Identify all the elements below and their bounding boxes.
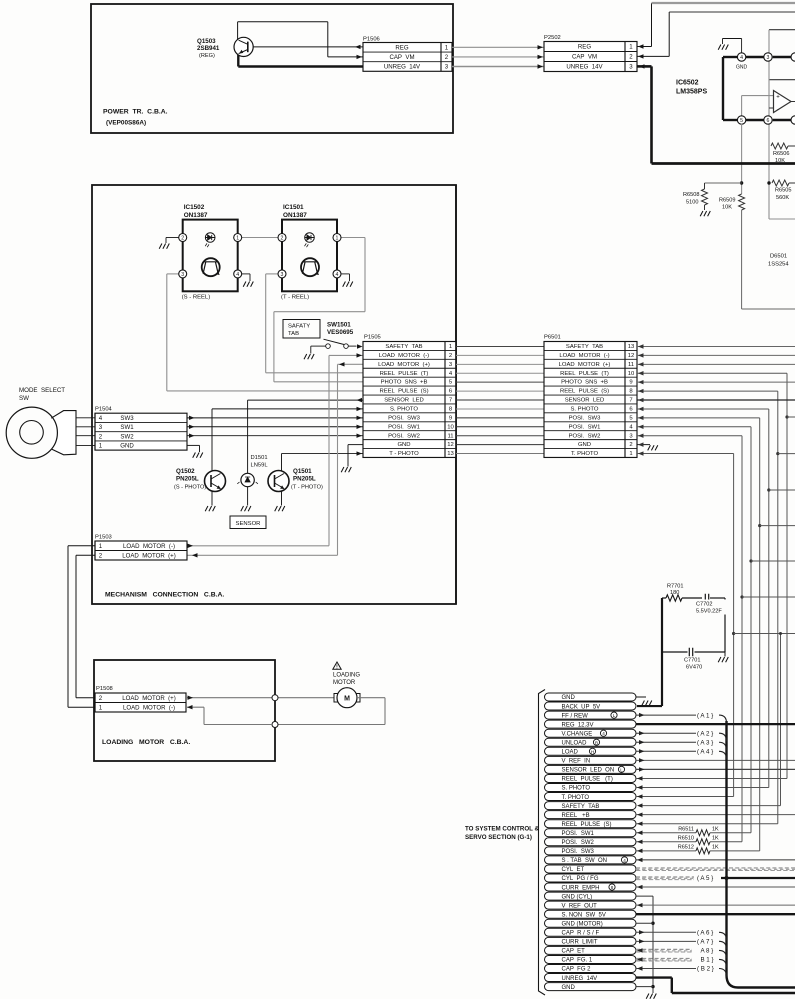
svg-text:2: 2 bbox=[281, 236, 284, 242]
svg-text:V REF IN: V REF IN bbox=[562, 759, 591, 765]
svg-text:REEL PULSE (T): REEL PULSE (T) bbox=[380, 371, 429, 377]
svg-text:(T - PHOTO): (T - PHOTO) bbox=[291, 485, 323, 491]
svg-text:+: + bbox=[776, 95, 780, 101]
svg-text:V REF OUT: V REF OUT bbox=[562, 903, 598, 909]
svg-text:3: 3 bbox=[181, 272, 184, 278]
svg-text:3: 3 bbox=[281, 272, 284, 278]
svg-text:CAP ET: CAP ET bbox=[562, 949, 586, 955]
svg-text:11: 11 bbox=[628, 362, 634, 368]
svg-text:CYL PG / FG: CYL PG / FG bbox=[562, 876, 599, 882]
svg-text:R6506: R6506 bbox=[773, 151, 789, 157]
svg-text:SENSOR LED ON: SENSOR LED ON bbox=[562, 768, 615, 774]
svg-text:A 8 }: A 8 } bbox=[697, 948, 713, 955]
svg-text:1SS254: 1SS254 bbox=[768, 262, 789, 268]
svg-text:( A 1 }: ( A 1 } bbox=[697, 712, 713, 719]
svg-text:MODE SELECT: MODE SELECT bbox=[19, 387, 65, 394]
svg-text:S. PHOTO: S. PHOTO bbox=[390, 407, 418, 413]
svg-text:(VEP00S86A): (VEP00S86A) bbox=[106, 120, 146, 127]
svg-text:1: 1 bbox=[236, 236, 239, 242]
svg-text:POSI. SW3: POSI. SW3 bbox=[388, 415, 420, 421]
svg-text:VES0695: VES0695 bbox=[327, 329, 354, 336]
svg-text:GND: GND bbox=[562, 695, 576, 701]
svg-text:IC6502: IC6502 bbox=[676, 80, 699, 87]
svg-text:MOTOR: MOTOR bbox=[333, 680, 356, 686]
svg-text:MECHANISM CONNECTION C.B.A: MECHANISM CONNECTION C.B.A. bbox=[105, 592, 224, 599]
svg-text:GND: GND bbox=[562, 985, 576, 991]
svg-text:P1506: P1506 bbox=[363, 37, 380, 43]
svg-text:UNREG 14V: UNREG 14V bbox=[562, 976, 598, 982]
svg-text:SW: SW bbox=[19, 395, 29, 402]
svg-text:6V470: 6V470 bbox=[686, 665, 702, 671]
svg-text:3: 3 bbox=[767, 55, 770, 61]
svg-text:ON1387: ON1387 bbox=[184, 212, 208, 219]
svg-text:R7701: R7701 bbox=[667, 584, 683, 590]
svg-text:12: 12 bbox=[628, 353, 635, 359]
svg-text:SAFETY TAB: SAFETY TAB bbox=[385, 344, 422, 350]
svg-text:LM358PS: LM358PS bbox=[676, 89, 707, 96]
svg-text:2: 2 bbox=[449, 353, 452, 359]
svg-text:S. PHOTO: S. PHOTO bbox=[562, 786, 591, 792]
svg-text:CAP VM: CAP VM bbox=[572, 54, 597, 61]
svg-text:POWER TR. C.B.A.: POWER TR. C.B.A. bbox=[103, 109, 168, 116]
svg-text:CAP FG. 1: CAP FG. 1 bbox=[562, 958, 593, 964]
svg-text:(T - REEL): (T - REEL) bbox=[281, 295, 309, 301]
svg-text:CAP FG 2: CAP FG 2 bbox=[562, 967, 592, 973]
svg-text:R6509: R6509 bbox=[719, 198, 735, 204]
svg-text:P1508: P1508 bbox=[96, 686, 113, 692]
svg-text:SW3: SW3 bbox=[120, 415, 134, 422]
svg-text:5.5V0.22F: 5.5V0.22F bbox=[696, 609, 722, 615]
svg-text:D1501: D1501 bbox=[251, 455, 268, 461]
svg-text:Q1502: Q1502 bbox=[176, 468, 195, 475]
svg-text:(S - REEL): (S - REEL) bbox=[182, 295, 211, 301]
svg-text:B: B bbox=[595, 740, 598, 745]
svg-text:P1503: P1503 bbox=[95, 535, 112, 541]
svg-text:1: 1 bbox=[449, 344, 452, 350]
svg-text:GND: GND bbox=[397, 442, 410, 448]
svg-text:7: 7 bbox=[629, 398, 632, 404]
svg-text:IC1502: IC1502 bbox=[184, 204, 205, 211]
svg-text:(REG): (REG) bbox=[199, 53, 215, 59]
svg-text:GND (CYL): GND (CYL) bbox=[562, 894, 593, 900]
svg-text:T. PHOTO: T. PHOTO bbox=[571, 451, 598, 457]
svg-text:LOAD: LOAD bbox=[562, 750, 579, 756]
svg-text:R6508: R6508 bbox=[683, 192, 699, 198]
svg-text:CAP VM: CAP VM bbox=[389, 54, 414, 61]
svg-text:SAFATY: SAFATY bbox=[288, 324, 310, 330]
svg-text:9: 9 bbox=[629, 380, 632, 386]
svg-text:T. PHOTO: T. PHOTO bbox=[562, 795, 590, 801]
svg-text:POSI. SW1: POSI. SW1 bbox=[562, 831, 595, 837]
svg-text:TO SYSTEM CONTROL &: TO SYSTEM CONTROL & bbox=[465, 826, 540, 833]
svg-text:H: H bbox=[591, 749, 594, 754]
svg-text:REEL PULSE (T): REEL PULSE (T) bbox=[562, 777, 613, 783]
svg-text:GND: GND bbox=[578, 442, 591, 448]
svg-text:4: 4 bbox=[602, 731, 605, 736]
svg-text:PN205L: PN205L bbox=[293, 476, 316, 483]
svg-text:SW1501: SW1501 bbox=[327, 322, 351, 329]
svg-text:L: L bbox=[620, 767, 623, 772]
svg-text:B 1 }: B 1 } bbox=[697, 957, 714, 964]
svg-text:D6501: D6501 bbox=[770, 254, 787, 260]
svg-text:V.CHANGE: V.CHANGE bbox=[562, 731, 593, 737]
svg-text:C7701: C7701 bbox=[684, 658, 700, 664]
svg-text:CURR LIMIT: CURR LIMIT bbox=[562, 940, 598, 946]
svg-text:10K: 10K bbox=[722, 205, 732, 211]
svg-text:13: 13 bbox=[628, 344, 635, 350]
svg-text:POSI. SW3: POSI. SW3 bbox=[562, 849, 595, 855]
svg-text:POSI. SW2: POSI. SW2 bbox=[562, 840, 595, 846]
svg-text:REG: REG bbox=[395, 44, 408, 51]
svg-text:LN59L: LN59L bbox=[251, 463, 269, 469]
svg-text:2: 2 bbox=[629, 442, 632, 448]
svg-text:P1504: P1504 bbox=[95, 407, 113, 413]
svg-text:C7702: C7702 bbox=[696, 602, 712, 608]
svg-text:PN205L: PN205L bbox=[176, 476, 199, 483]
svg-text:REG 12.3V: REG 12.3V bbox=[562, 722, 594, 728]
svg-text:REEL +B: REEL +B bbox=[562, 813, 590, 819]
svg-text:GND (MOTOR): GND (MOTOR) bbox=[562, 921, 603, 927]
svg-text:13: 13 bbox=[447, 451, 454, 457]
svg-text:SERVO SECTION (G-1): SERVO SECTION (G-1) bbox=[465, 834, 532, 841]
svg-text:REEL PULSE (S): REEL PULSE (S) bbox=[562, 822, 612, 828]
svg-text:( A 7 }: ( A 7 } bbox=[697, 939, 713, 946]
svg-text:BACK UP 5V: BACK UP 5V bbox=[562, 704, 601, 710]
svg-text:ON1387: ON1387 bbox=[283, 212, 307, 219]
svg-text:LOAD MOTOR (+): LOAD MOTOR (+) bbox=[559, 362, 611, 368]
svg-text:UNREG 14V: UNREG 14V bbox=[566, 64, 603, 71]
svg-text:LOAD MOTOR (-): LOAD MOTOR (-) bbox=[123, 543, 175, 550]
svg-text:SENSOR LED: SENSOR LED bbox=[565, 398, 605, 404]
svg-text:1: 1 bbox=[629, 451, 632, 457]
svg-text:M: M bbox=[344, 695, 350, 702]
svg-text:8: 8 bbox=[611, 885, 614, 890]
svg-text:SENSOR: SENSOR bbox=[236, 521, 261, 527]
svg-text:2SB941: 2SB941 bbox=[197, 45, 220, 52]
svg-text:10: 10 bbox=[628, 371, 635, 377]
svg-text:CURR EMPH: CURR EMPH bbox=[562, 885, 600, 891]
svg-text:CYL ET: CYL ET bbox=[562, 867, 585, 873]
svg-text:POSI. SW1: POSI. SW1 bbox=[388, 424, 420, 430]
svg-text:Q1503: Q1503 bbox=[197, 38, 216, 45]
svg-text:R6512: R6512 bbox=[678, 845, 694, 851]
svg-text:4: 4 bbox=[623, 858, 626, 863]
svg-text:4: 4 bbox=[336, 272, 339, 278]
svg-text:( A 3 }: ( A 3 } bbox=[697, 739, 713, 746]
svg-text:( B 2 }: ( B 2 } bbox=[697, 966, 714, 973]
svg-text:LOAD MOTOR (+): LOAD MOTOR (+) bbox=[122, 552, 176, 559]
svg-text:R6510: R6510 bbox=[678, 836, 694, 842]
svg-text:10: 10 bbox=[447, 424, 454, 430]
svg-text:POSI. SW1: POSI. SW1 bbox=[569, 424, 601, 430]
svg-text:(S - PHOTO): (S - PHOTO) bbox=[174, 485, 206, 491]
svg-text:LOAD MOTOR (+): LOAD MOTOR (+) bbox=[122, 695, 176, 702]
svg-text:Q1501: Q1501 bbox=[293, 468, 312, 475]
svg-text:1K: 1K bbox=[712, 845, 719, 851]
svg-text:P2502: P2502 bbox=[544, 35, 561, 41]
svg-text:( A 5 }: ( A 5 } bbox=[697, 875, 713, 882]
svg-text:POSI. SW3: POSI. SW3 bbox=[569, 415, 601, 421]
svg-text:12: 12 bbox=[447, 442, 454, 448]
svg-text:S. PHOTO: S. PHOTO bbox=[570, 407, 598, 413]
svg-text:5100: 5100 bbox=[686, 200, 698, 206]
svg-text:UNLOAD: UNLOAD bbox=[562, 740, 588, 746]
svg-text:SW2: SW2 bbox=[120, 433, 134, 440]
svg-text:SW1: SW1 bbox=[120, 424, 134, 431]
svg-text:LOAD MOTOR (-): LOAD MOTOR (-) bbox=[559, 353, 609, 359]
svg-text:L: L bbox=[613, 713, 616, 718]
svg-text:7: 7 bbox=[449, 398, 452, 404]
svg-text:2: 2 bbox=[181, 236, 184, 242]
svg-text:4: 4 bbox=[236, 272, 239, 278]
svg-text:SAFETY TAB: SAFETY TAB bbox=[566, 344, 603, 350]
svg-text:LOADING MOTOR C.B.A.: LOADING MOTOR C.B.A. bbox=[102, 739, 190, 746]
svg-text:POSI. SW2: POSI. SW2 bbox=[388, 433, 420, 439]
svg-text:1K: 1K bbox=[712, 836, 719, 842]
svg-text:GND: GND bbox=[736, 65, 748, 71]
svg-text:R6511: R6511 bbox=[678, 827, 694, 833]
svg-text:CAP R / S / F: CAP R / S / F bbox=[562, 931, 600, 937]
svg-text:FF / REW: FF / REW bbox=[562, 713, 589, 719]
svg-text:SAFETY TAB: SAFETY TAB bbox=[562, 804, 600, 810]
svg-text:9: 9 bbox=[449, 415, 452, 421]
svg-text:IC1501: IC1501 bbox=[283, 204, 304, 211]
svg-text:6: 6 bbox=[767, 118, 770, 124]
svg-text:R6505: R6505 bbox=[775, 188, 791, 194]
svg-text:-: - bbox=[777, 108, 779, 114]
svg-text:LOAD MOTOR (-): LOAD MOTOR (-) bbox=[379, 353, 429, 359]
svg-text:180: 180 bbox=[670, 590, 679, 596]
svg-text:( A 6 }: ( A 6 } bbox=[697, 930, 713, 937]
svg-text:11: 11 bbox=[447, 433, 453, 439]
svg-text:T - PHOTO: T - PHOTO bbox=[389, 451, 419, 457]
svg-text:POSI. SW2: POSI. SW2 bbox=[569, 433, 601, 439]
svg-text:REEL PULSE (S): REEL PULSE (S) bbox=[379, 389, 428, 395]
svg-text:560K: 560K bbox=[776, 195, 789, 201]
svg-text:P1505: P1505 bbox=[364, 335, 381, 341]
svg-text:GND: GND bbox=[120, 443, 134, 450]
svg-text:S . TAB SW ON: S . TAB SW ON bbox=[562, 858, 607, 864]
svg-text:P6501: P6501 bbox=[544, 335, 561, 341]
svg-text:LOAD MOTOR (-): LOAD MOTOR (-) bbox=[123, 704, 175, 711]
svg-text:1: 1 bbox=[336, 236, 339, 242]
svg-text:4: 4 bbox=[740, 55, 743, 61]
svg-text:UNREG 14V: UNREG 14V bbox=[384, 64, 421, 71]
svg-text:SENSOR LED: SENSOR LED bbox=[384, 398, 424, 404]
svg-text:PHOTO SNS +B: PHOTO SNS +B bbox=[561, 380, 608, 386]
svg-text:TAB: TAB bbox=[288, 331, 299, 337]
svg-text:LOAD MOTOR (+): LOAD MOTOR (+) bbox=[378, 362, 430, 368]
svg-text:( A 2 }: ( A 2 } bbox=[697, 730, 713, 737]
svg-text:( A 4 }: ( A 4 } bbox=[697, 749, 713, 756]
svg-text:1K: 1K bbox=[712, 827, 719, 833]
svg-text:LOADING: LOADING bbox=[333, 673, 360, 679]
svg-text:S. NON SW 5V: S. NON SW 5V bbox=[562, 912, 606, 918]
svg-text:REEL PULSE (T): REEL PULSE (T) bbox=[560, 371, 609, 377]
svg-text:REG: REG bbox=[578, 44, 591, 51]
svg-text:5: 5 bbox=[740, 118, 743, 124]
svg-text:PHOTO SNS +B: PHOTO SNS +B bbox=[381, 380, 428, 386]
svg-text:REEL PULSE (S): REEL PULSE (S) bbox=[560, 389, 609, 395]
